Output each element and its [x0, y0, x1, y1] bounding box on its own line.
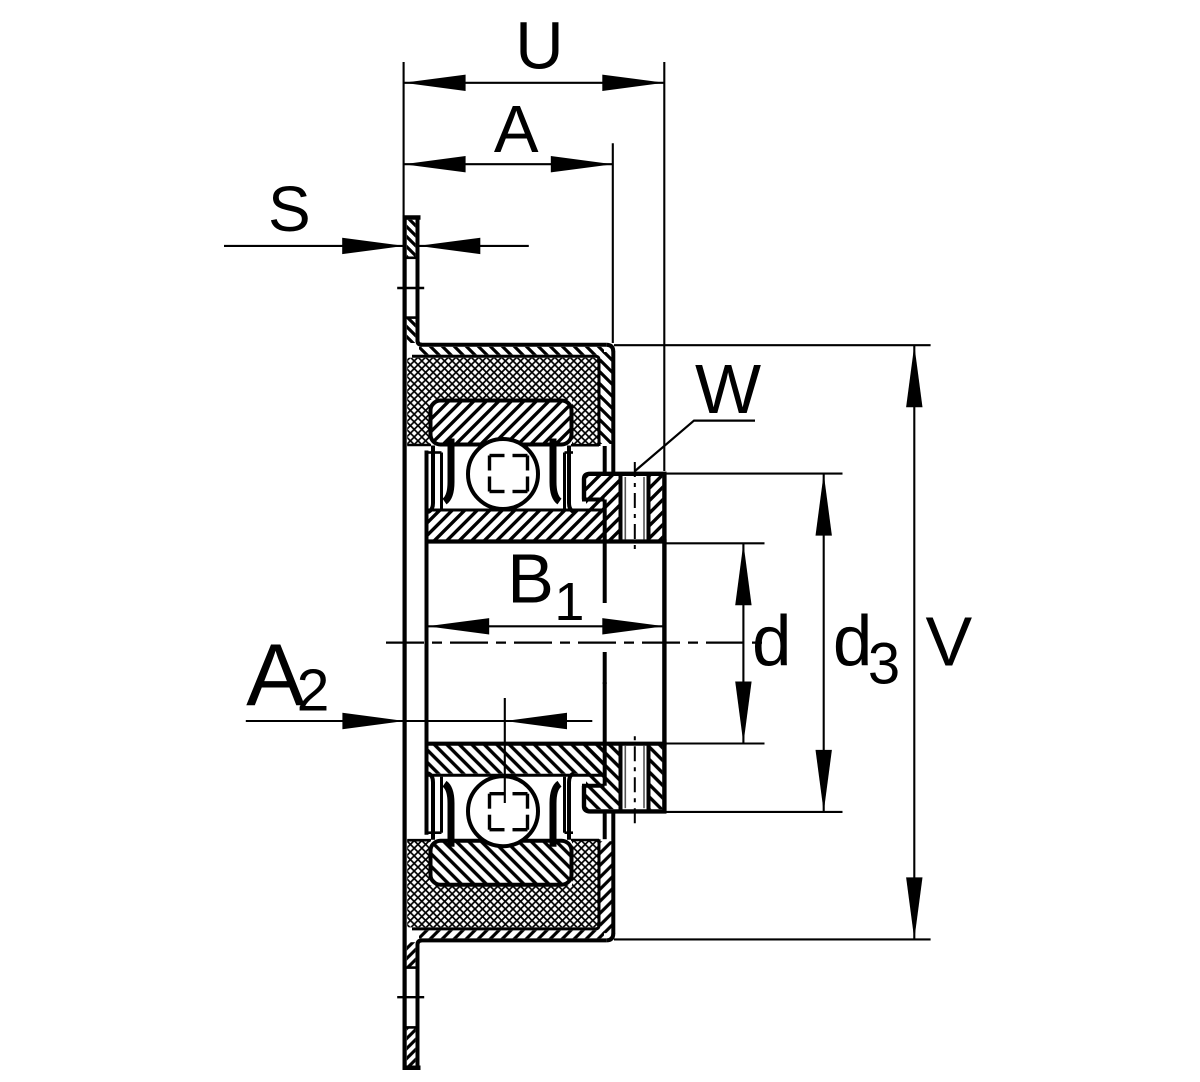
svg-text:S: S — [268, 173, 311, 245]
svg-text:d: d — [752, 603, 792, 682]
svg-text:V: V — [925, 603, 972, 681]
svg-text:1: 1 — [554, 572, 584, 632]
svg-text:U: U — [515, 9, 563, 84]
svg-text:3: 3 — [868, 631, 900, 696]
svg-text:d: d — [833, 603, 873, 682]
svg-text:2: 2 — [297, 658, 330, 724]
svg-text:W: W — [695, 350, 761, 428]
svg-text:B: B — [507, 540, 554, 618]
svg-text:A: A — [494, 92, 539, 167]
